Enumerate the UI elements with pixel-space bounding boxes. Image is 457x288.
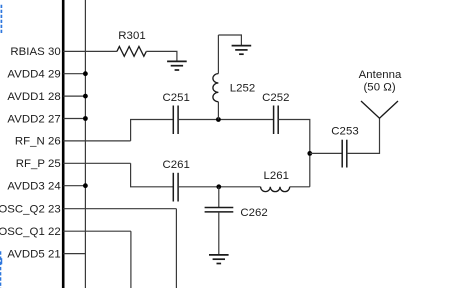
- capacitor C253: [342, 140, 347, 168]
- wire L261 to right bus: [290, 186, 310, 188]
- antenna: [361, 101, 398, 118]
- wire L252 to top ground: [218, 35, 241, 45]
- wire C251 to C252 (top branch): [178, 119, 274, 121]
- pin AVDD5 21: [7, 248, 85, 260]
- svg-text:C261: C261: [162, 159, 189, 171]
- svg-text:RF_N 26: RF_N 26: [15, 136, 61, 148]
- inductor L252: [213, 74, 219, 102]
- svg-text:C252: C252: [262, 92, 289, 104]
- pin RF_N 26: [15, 136, 131, 148]
- resistor R301: [117, 47, 146, 57]
- svg-text:OSC_Q1 22: OSC_Q1 22: [0, 226, 61, 238]
- junction dot bottom branch / C262: [216, 184, 221, 189]
- svg-text:AVDD3 24: AVDD3 24: [7, 181, 60, 193]
- blue dashed margin mark (bottom-left): [1, 251, 2, 288]
- pin RBIAS 30: [10, 46, 117, 58]
- capacitor C251: [173, 106, 178, 135]
- pin AVDD1 28: [7, 91, 85, 103]
- capacitor C261: [173, 173, 178, 202]
- AVDD bus wire: [84, 0, 86, 288]
- wire C262 stem lower: [218, 212, 220, 255]
- wire RF_P to C261: [131, 163, 174, 187]
- capacitor C262: [205, 208, 234, 212]
- pin AVDD3 24: [7, 181, 85, 193]
- pin AVDD4 29: [7, 69, 85, 81]
- svg-text:Antenna: Antenna: [359, 69, 402, 81]
- wire RF_N to C251: [131, 120, 174, 141]
- svg-text:C262: C262: [240, 207, 267, 219]
- junction dot AVDD2/bus: [83, 116, 88, 121]
- junction dot top branch / L252: [216, 117, 221, 122]
- junction dot AVDD1/bus: [83, 94, 88, 99]
- svg-text:RF_P 25: RF_P 25: [16, 158, 61, 170]
- wire right bus lower: [309, 153, 311, 186]
- wire OSC_Q1 drop: [130, 231, 132, 288]
- svg-text:RBIAS 30: RBIAS 30: [10, 46, 60, 58]
- junction dot antenna tap: [307, 151, 312, 156]
- wire C252 to right bus: [278, 120, 310, 154]
- junction dot AVDD4/bus: [83, 71, 88, 76]
- pin OSC_Q1 22: [0, 226, 131, 238]
- svg-text:AVDD4 29: AVDD4 29: [7, 69, 60, 81]
- wire L252 leads: [217, 35, 219, 120]
- svg-text:AVDD5 21: AVDD5 21: [7, 248, 60, 260]
- wire C261 to L261 (bottom branch): [178, 186, 261, 188]
- wire R301 to ground: [146, 51, 177, 61]
- capacitor C252: [274, 106, 279, 135]
- wire C262 stem upper: [218, 187, 220, 208]
- svg-text:L261: L261: [264, 170, 290, 182]
- wire OSC_Q2 drop: [175, 209, 177, 288]
- pin OSC_Q2 23: [0, 204, 176, 216]
- svg-text:R301: R301: [118, 30, 145, 42]
- ground (C262): [209, 255, 229, 264]
- svg-text:(50 Ω): (50 Ω): [363, 81, 395, 93]
- pin RF_P 25: [16, 158, 131, 170]
- wire antenna tap to C253: [310, 152, 342, 154]
- svg-text:AVDD1 28: AVDD1 28: [7, 91, 60, 103]
- svg-text:C253: C253: [331, 126, 358, 138]
- ground (top, L252): [232, 46, 252, 55]
- wire C253 to antenna: [347, 118, 380, 153]
- svg-text:OSC_Q2 23: OSC_Q2 23: [0, 204, 61, 216]
- junction dot AVDD3/bus: [83, 183, 88, 188]
- svg-text:C251: C251: [162, 92, 189, 104]
- inductor L261: [261, 187, 290, 192]
- ground (R301): [167, 61, 187, 70]
- svg-text:AVDD2 27: AVDD2 27: [7, 113, 60, 125]
- svg-text:L252: L252: [230, 82, 256, 94]
- IC package edge: [62, 0, 65, 288]
- blue dashed margin mark (top-left): [0, 5, 2, 34]
- pin AVDD2 27: [7, 113, 85, 125]
